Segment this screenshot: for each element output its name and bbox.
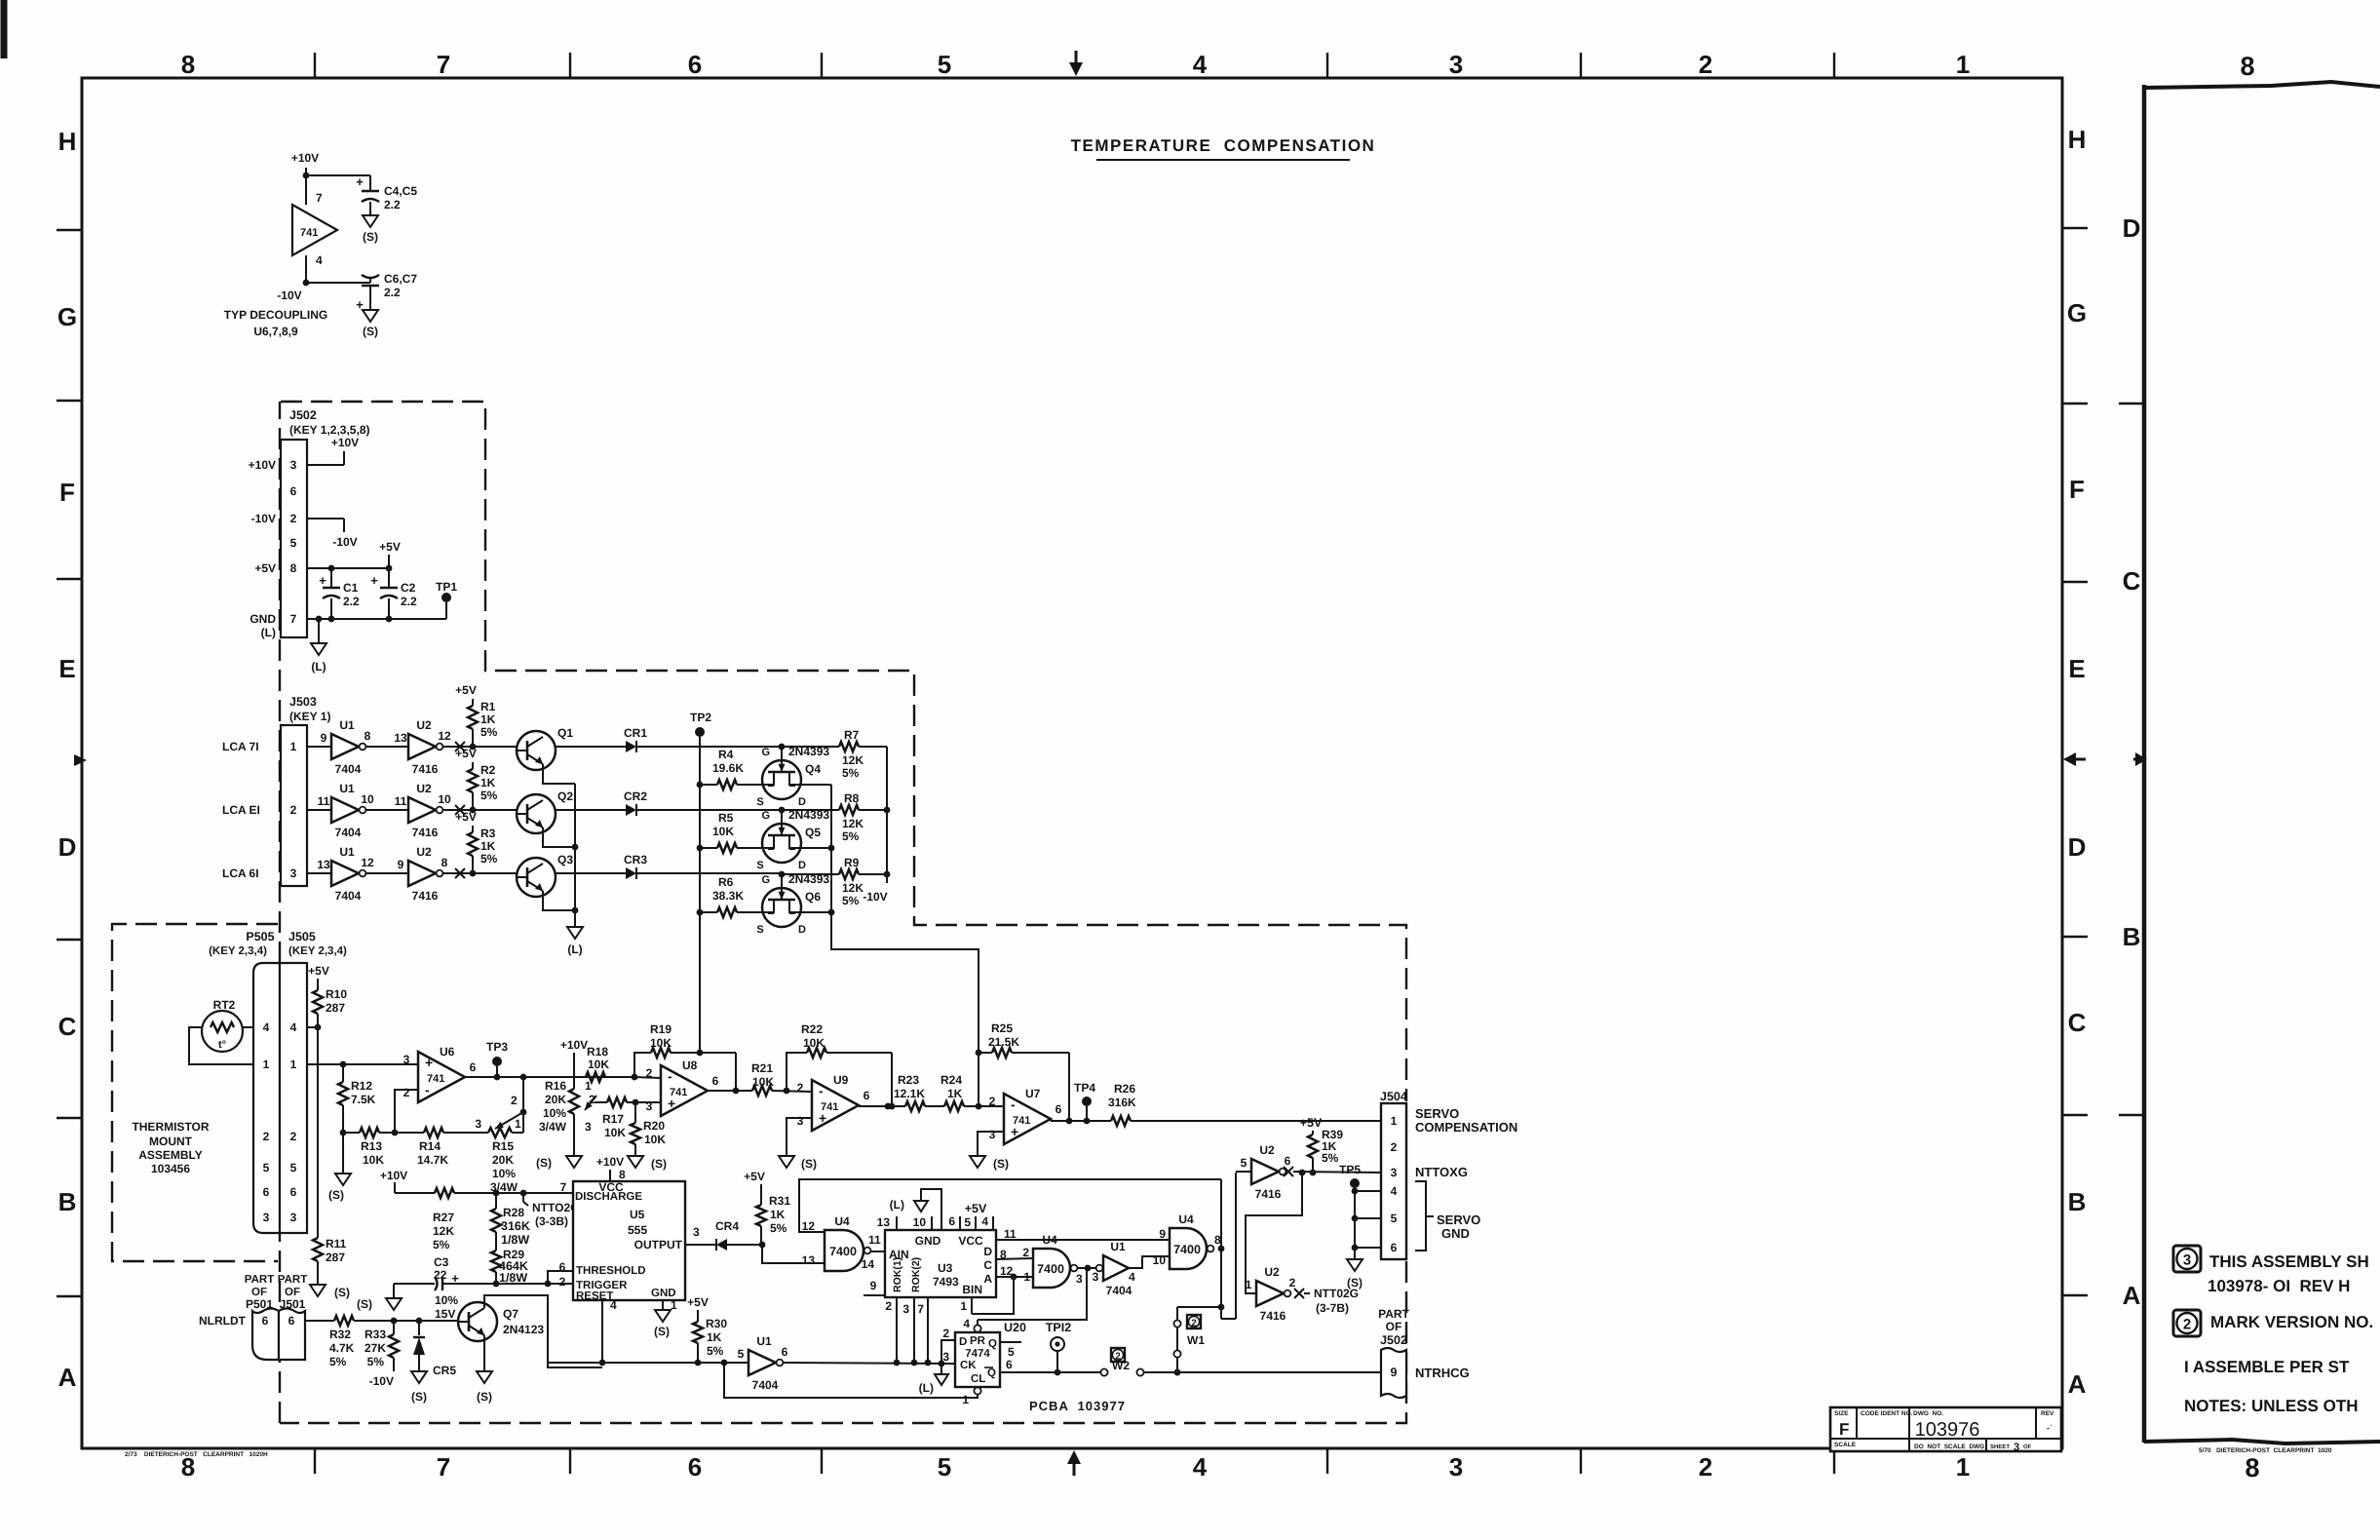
IC U5 555	[573, 1180, 685, 1302]
svg-text:SCALE: SCALE	[1834, 1442, 1857, 1448]
svg-text:U1: U1	[339, 718, 355, 732]
U20 D hook	[941, 1327, 955, 1364]
node +10V (decoupling)	[291, 151, 319, 178]
svg-text:2: 2	[942, 1327, 949, 1340]
wire	[556, 746, 626, 748]
IC U3 7493	[885, 1230, 996, 1297]
svg-text:-: -	[668, 1068, 672, 1084]
svg-text:COMPENSATION: COMPENSATION	[1415, 1120, 1517, 1135]
node U8 inverting	[632, 1074, 661, 1081]
wire U6 output	[465, 1074, 634, 1081]
wire NTTOXG row	[1284, 1167, 1381, 1176]
svg-text:MOUNT: MOUNT	[149, 1135, 193, 1148]
svg-text:CODE IDENT NO.: CODE IDENT NO.	[1861, 1410, 1913, 1417]
svg-text:U3: U3	[938, 1261, 953, 1275]
svg-text:7474: 7474	[965, 1348, 990, 1360]
wire	[443, 868, 530, 878]
ground (S)	[328, 1174, 351, 1202]
resistor R12 7.5K	[338, 1064, 376, 1133]
svg-text:R10: R10	[326, 987, 347, 1001]
svg-text:W1: W1	[1187, 1333, 1205, 1347]
P505/J505 pin numbers	[263, 1020, 297, 1224]
main sheet border	[82, 78, 2062, 1448]
svg-text:-: -	[1011, 1097, 1016, 1112]
svg-text:8: 8	[2245, 1453, 2259, 1482]
svg-text:741: 741	[300, 227, 318, 239]
wire +5V rail from pin 8	[307, 540, 401, 571]
svg-text:C: C	[2068, 1008, 2087, 1037]
op-amp U6 741	[403, 1045, 477, 1102]
U3 bottom pin stubs 2,3,7	[885, 1297, 928, 1363]
svg-text:(KEY 2,3,4): (KEY 2,3,4)	[288, 945, 347, 957]
wire TP5 to pins 4,5,6	[1355, 1191, 1381, 1248]
capacitor C3 22 10% 15V	[394, 1255, 496, 1321]
svg-text:11: 11	[395, 794, 407, 808]
svg-text:11: 11	[318, 794, 330, 808]
resistor R7 12K 5%	[782, 728, 887, 780]
ground (S)	[1347, 1248, 1363, 1290]
svg-text:9: 9	[1159, 1227, 1166, 1241]
svg-text:B: B	[2123, 922, 2141, 951]
IC U20 7474	[955, 1332, 1000, 1387]
wire -10V from pin 2	[307, 519, 358, 549]
svg-text:6: 6	[1285, 1154, 1291, 1168]
svg-text:10: 10	[913, 1215, 927, 1229]
node +10V R27 feed	[380, 1169, 407, 1193]
svg-text:316K: 316K	[1108, 1096, 1136, 1109]
inverter U2 7416 (NTT02G)	[1246, 1265, 1296, 1323]
transistor Q1	[517, 726, 573, 770]
svg-text:7416: 7416	[1260, 1309, 1286, 1323]
svg-text:9: 9	[321, 731, 327, 745]
svg-text:10K: 10K	[588, 1058, 609, 1071]
wire +10V from pin 3	[307, 436, 359, 465]
wire drain	[789, 911, 831, 913]
resistor R26 316K	[1108, 1082, 1136, 1126]
svg-text:ROK(2): ROK(2)	[910, 1257, 922, 1292]
resistor R29 464K 1/8W	[491, 1232, 528, 1285]
svg-text:10%: 10%	[492, 1167, 516, 1180]
resistor R14 14.7K	[395, 1128, 488, 1167]
svg-text:8: 8	[1000, 1248, 1007, 1261]
svg-text:8: 8	[181, 50, 195, 79]
diode CR2	[624, 789, 647, 816]
svg-text:P505: P505	[246, 930, 274, 943]
svg-text:C: C	[983, 1258, 992, 1272]
svg-text:6: 6	[1006, 1358, 1013, 1371]
svg-text:E: E	[58, 654, 75, 683]
svg-text:D: D	[58, 832, 77, 862]
J503 pin numbers	[290, 740, 297, 880]
svg-text:(L): (L)	[890, 1198, 904, 1212]
wire U3 BIN loop	[960, 1274, 1017, 1314]
wire U6 pin2	[395, 1090, 418, 1133]
wire	[307, 809, 331, 811]
wire GND rail pin 7	[307, 616, 446, 623]
svg-text:5%: 5%	[707, 1344, 724, 1358]
svg-text:I ASSEMBLE PER ST: I ASSEMBLE PER ST	[2184, 1358, 2350, 1376]
wire U2B input loop	[1246, 1173, 1302, 1293]
svg-text:+10V: +10V	[249, 458, 276, 472]
resistor R25 21.5K feedback	[976, 1021, 1073, 1124]
top border center arrow	[1069, 51, 1083, 76]
svg-text:15V: 15V	[435, 1307, 455, 1321]
svg-text:OUTPUT: OUTPUT	[634, 1238, 683, 1251]
svg-text:2: 2	[1699, 50, 1712, 79]
op-amp 741 typ decoupling	[292, 191, 337, 267]
svg-text:ASSEMBLY: ASSEMBLY	[138, 1148, 203, 1162]
svg-text:(3-7B): (3-7B)	[1316, 1301, 1349, 1315]
svg-text:7.5K: 7.5K	[351, 1093, 376, 1106]
svg-text:7400: 7400	[1173, 1243, 1201, 1256]
svg-text:R4: R4	[718, 748, 734, 761]
svg-text:Q: Q	[988, 1338, 997, 1350]
svg-text:7404: 7404	[335, 889, 362, 903]
svg-text:1: 1	[290, 1058, 297, 1071]
left zone letters	[58, 127, 77, 1392]
P501/J501 pin 6	[199, 1314, 295, 1328]
resistor R30 1K 5%	[687, 1295, 727, 1366]
test point TP2	[690, 711, 711, 737]
svg-text:R22: R22	[801, 1022, 823, 1036]
inverter U1 7404 (Q3 channel)	[317, 845, 374, 903]
wire	[556, 809, 626, 811]
svg-text:CK: CK	[960, 1360, 977, 1371]
svg-text:A: A	[2123, 1281, 2141, 1310]
svg-text:7400: 7400	[1037, 1262, 1064, 1276]
svg-text:7: 7	[917, 1302, 924, 1316]
wire U4 pin12 loop	[799, 1179, 1221, 1232]
svg-text:LCA 6I: LCA 6I	[222, 866, 259, 880]
svg-text:G: G	[761, 747, 770, 758]
resistor R10 287	[308, 964, 347, 1027]
svg-text:Q4: Q4	[805, 762, 821, 776]
svg-text:4: 4	[1391, 1184, 1398, 1198]
inverter U2 7416 (Q2 channel)	[395, 782, 451, 839]
inverter U2 7416 (NTTOXG)	[1241, 1143, 1291, 1201]
svg-text:R32: R32	[329, 1328, 351, 1341]
svg-text:3: 3	[1093, 1270, 1099, 1284]
svg-text:C: C	[58, 1012, 77, 1041]
svg-text:(KEY 2,3,4): (KEY 2,3,4)	[209, 945, 267, 957]
svg-text:CR3: CR3	[624, 853, 647, 866]
connector J502	[281, 408, 370, 637]
svg-text:(S): (S)	[993, 1157, 1009, 1171]
svg-text:3: 3	[1449, 1452, 1463, 1482]
fet Q5 2N4393	[756, 807, 829, 871]
bottom border zone ticks	[315, 1448, 1834, 1474]
wire trigger row	[493, 1281, 573, 1288]
svg-text:2.2: 2.2	[343, 595, 360, 608]
svg-text:10K: 10K	[752, 1075, 774, 1089]
svg-text:3: 3	[290, 458, 297, 472]
svg-text:5: 5	[290, 1161, 297, 1174]
svg-text:3: 3	[1449, 50, 1463, 79]
wire U7 out	[1051, 1118, 1111, 1125]
svg-text:3: 3	[2183, 1252, 2191, 1269]
svg-text:4: 4	[981, 1214, 988, 1228]
svg-text:5: 5	[1391, 1212, 1398, 1225]
svg-text:CR5: CR5	[433, 1364, 456, 1377]
resistor R5 10K	[700, 811, 774, 853]
svg-text:5%: 5%	[480, 789, 498, 802]
resistor R31 1K 5%	[744, 1170, 790, 1245]
svg-text:1: 1	[515, 1117, 521, 1131]
ground (S)	[970, 1156, 1009, 1171]
svg-text:S: S	[756, 860, 763, 871]
svg-text:3: 3	[989, 1128, 996, 1141]
svg-text:12: 12	[802, 1219, 816, 1233]
svg-text:+5V: +5V	[455, 683, 477, 697]
wire U4 out to U3 AIN	[862, 1251, 885, 1271]
svg-text:11: 11	[868, 1233, 881, 1247]
wire	[366, 872, 408, 874]
svg-text:G: G	[58, 302, 77, 331]
svg-text:11: 11	[1004, 1227, 1017, 1241]
wire reset row	[548, 1360, 749, 1367]
svg-text:R25: R25	[991, 1021, 1013, 1035]
wire jog to U2 input column	[1221, 1173, 1236, 1319]
resistor R23 12.1K	[894, 1073, 944, 1111]
resistor R8 12K 5%	[782, 791, 887, 843]
U20 CL pin1	[962, 1387, 980, 1406]
connector J503	[281, 695, 330, 886]
svg-text:PART: PART	[245, 1274, 274, 1286]
svg-text:5: 5	[938, 1452, 951, 1482]
svg-text:R23: R23	[898, 1073, 919, 1087]
right border center arrow	[2063, 752, 2086, 766]
ground (S)	[628, 1156, 667, 1171]
svg-text:(S): (S)	[363, 230, 378, 244]
connector J505	[280, 930, 347, 1233]
wire U2 input	[1236, 1171, 1251, 1173]
J503 signal labels	[222, 740, 260, 880]
svg-text:9: 9	[870, 1279, 877, 1292]
svg-text:3: 3	[290, 1211, 297, 1224]
svg-text:R5: R5	[718, 811, 734, 825]
wire drain bus to R25	[828, 785, 979, 1106]
wire emitter	[543, 764, 575, 784]
svg-text:TEMPERATURE COMPENSATION: TEMPERATURE COMPENSATION	[1071, 136, 1376, 155]
nand U4 7400 (left)	[802, 1214, 881, 1271]
svg-text:10%: 10%	[435, 1293, 458, 1307]
svg-text:U7: U7	[1025, 1087, 1041, 1100]
resistor R28 316K 1/8W	[491, 1193, 530, 1247]
op-amp U8 741	[646, 1059, 719, 1116]
U5 gnd pin 1	[654, 1298, 677, 1338]
svg-text:U2: U2	[416, 782, 432, 795]
inverter U1 7404 (Q2 channel)	[318, 782, 374, 839]
right border zone ticks	[2062, 228, 2088, 1295]
transistor Q3	[517, 853, 573, 897]
wire emitter	[543, 828, 575, 847]
svg-text:-10V: -10V	[863, 890, 887, 904]
svg-text:B: B	[2068, 1187, 2087, 1216]
svg-text:C4,C5: C4,C5	[384, 184, 417, 198]
wire -10V bus (R7/R8/R9)	[863, 747, 890, 904]
resistor R4 19.6K	[700, 748, 774, 789]
svg-text:7404: 7404	[752, 1378, 779, 1392]
left border center arrow	[74, 754, 87, 766]
resistor R3 1K 5%	[455, 810, 498, 873]
ground (L)	[311, 619, 326, 674]
U20 PR pin4	[963, 1268, 1087, 1332]
connector J501 (part of)	[278, 1274, 307, 1360]
svg-text:4: 4	[1129, 1270, 1135, 1284]
svg-text:287: 287	[326, 1001, 345, 1015]
svg-text:GND: GND	[250, 612, 276, 626]
svg-text:7: 7	[290, 612, 297, 626]
wire to ground	[342, 1133, 344, 1174]
resistor R2 1K 5%	[455, 747, 498, 810]
svg-text:Q2: Q2	[557, 789, 573, 803]
svg-text:5%: 5%	[842, 766, 860, 780]
svg-text:27K: 27K	[365, 1341, 386, 1355]
svg-text:7: 7	[316, 191, 323, 205]
title block	[1830, 1407, 2061, 1453]
svg-text:U2: U2	[1259, 1143, 1275, 1157]
svg-text:A: A	[58, 1363, 77, 1392]
wire to J504 pin1	[1131, 1120, 1381, 1122]
test point TP5	[1339, 1163, 1361, 1251]
svg-text:14: 14	[862, 1257, 875, 1271]
svg-text:U1: U1	[339, 845, 355, 859]
op-amp U7 741	[989, 1087, 1062, 1144]
svg-text:DO NOT SCALE DWG: DO NOT SCALE DWG	[1914, 1444, 1984, 1450]
svg-text:(S): (S)	[411, 1390, 427, 1404]
wire U9 out	[859, 1103, 905, 1110]
ground (L) U20 CK node	[919, 1364, 948, 1395]
svg-text:3: 3	[403, 1053, 410, 1066]
svg-text:8: 8	[1214, 1233, 1221, 1247]
svg-text:1K: 1K	[480, 776, 496, 789]
svg-text:R30: R30	[706, 1317, 727, 1330]
svg-text:THIS ASSEMBLY SH: THIS ASSEMBLY SH	[2209, 1252, 2369, 1271]
svg-text:SHEET: SHEET	[1990, 1444, 2010, 1450]
svg-text:G: G	[761, 810, 770, 822]
svg-text:THERMISTOR: THERMISTOR	[132, 1120, 209, 1134]
svg-text:+10V: +10V	[596, 1155, 624, 1169]
resistor R13 10K	[343, 1128, 395, 1167]
svg-text:38.3K: 38.3K	[712, 889, 744, 903]
fet Q4 2N4393	[756, 744, 829, 808]
note symbol 2	[2173, 1310, 2201, 1336]
svg-text:D: D	[798, 796, 806, 808]
svg-text:+5V: +5V	[308, 964, 329, 978]
op-amp U9 741	[797, 1073, 870, 1131]
resistor R27 12K 5%	[395, 1188, 573, 1251]
svg-text:4: 4	[290, 1020, 297, 1034]
svg-text:TP2: TP2	[690, 711, 711, 724]
svg-text:D: D	[959, 1336, 967, 1348]
U3 pin 9 stub	[864, 1279, 885, 1295]
wire	[366, 809, 408, 811]
svg-text:J502: J502	[289, 408, 317, 422]
svg-text:2: 2	[646, 1066, 653, 1080]
wire J505 pin1 to U6	[307, 1061, 418, 1068]
svg-text:J502: J502	[1380, 1333, 1407, 1347]
test point TP4	[1074, 1081, 1095, 1121]
svg-text:2: 2	[1391, 1140, 1398, 1154]
svg-text:316K: 316K	[501, 1219, 530, 1233]
svg-text:8: 8	[441, 856, 448, 869]
svg-text:NTTOXG: NTTOXG	[1415, 1165, 1468, 1179]
svg-text:1: 1	[1956, 1452, 1970, 1482]
jumper W1	[1173, 1320, 1180, 1375]
svg-text:U4: U4	[834, 1214, 850, 1228]
svg-text:+10V: +10V	[560, 1038, 588, 1052]
svg-text:C6,C7: C6,C7	[384, 272, 417, 286]
thermistor RT2	[202, 998, 243, 1052]
wire U20 CL loop	[724, 1363, 978, 1398]
ground (L) hook U3 pin10	[890, 1189, 941, 1230]
svg-text:6: 6	[288, 1314, 295, 1328]
svg-text:R1: R1	[480, 700, 496, 713]
svg-text:10: 10	[361, 792, 374, 806]
ground (S)	[536, 1156, 582, 1170]
svg-text:C3: C3	[434, 1255, 449, 1269]
svg-text:1: 1	[1023, 1270, 1030, 1284]
diode CR1	[624, 726, 647, 752]
svg-text:3: 3	[693, 1225, 700, 1239]
svg-text:741: 741	[427, 1073, 444, 1085]
svg-text:TYP DECOUPLING: TYP DECOUPLING	[224, 308, 327, 322]
J504 pin numbers	[1391, 1114, 1398, 1254]
svg-text:1: 1	[962, 1393, 969, 1406]
svg-text:-: -	[819, 1083, 824, 1098]
transistor Q7 2N4123	[458, 1302, 544, 1341]
svg-text:SIZE: SIZE	[1834, 1410, 1849, 1417]
ground (S)	[363, 310, 378, 338]
wire	[443, 805, 530, 815]
svg-text:4: 4	[610, 1298, 617, 1312]
svg-text:3: 3	[263, 1211, 270, 1224]
svg-text:6: 6	[864, 1089, 870, 1102]
svg-text:A: A	[2068, 1369, 2087, 1399]
svg-text:F: F	[1839, 1420, 1849, 1439]
svg-text:12: 12	[1000, 1264, 1014, 1278]
svg-text:5: 5	[290, 536, 297, 550]
svg-text:2: 2	[290, 1130, 297, 1143]
wire	[277, 255, 370, 302]
svg-text:R14: R14	[419, 1139, 441, 1153]
resistor R24 1K	[940, 1073, 1004, 1111]
inverter U1 7404 (Q1 channel)	[321, 718, 371, 776]
svg-text:7404: 7404	[1106, 1284, 1132, 1297]
svg-text:8: 8	[2240, 52, 2254, 81]
label TYP DECOUPLING U6,7,8,9	[224, 308, 327, 338]
wire CR4 node to U4 pin13	[762, 1245, 825, 1263]
resistor R39 1K 5%	[1300, 1116, 1344, 1173]
wire NTRHCG row	[1056, 1371, 1100, 1373]
svg-text:741: 741	[821, 1101, 838, 1113]
svg-text:4: 4	[1193, 50, 1208, 79]
svg-text:12K: 12K	[842, 753, 864, 767]
svg-text:+: +	[356, 174, 364, 189]
U5 VCC pin 8	[596, 1155, 626, 1181]
svg-text:13: 13	[802, 1253, 816, 1267]
svg-text:2: 2	[263, 1130, 270, 1143]
svg-text:C1: C1	[343, 581, 359, 595]
node R12/R13	[340, 1130, 347, 1136]
svg-text:10K: 10K	[363, 1153, 384, 1167]
svg-text:2: 2	[290, 803, 297, 817]
svg-text:+5V: +5V	[744, 1170, 765, 1183]
svg-text:-10V: -10V	[277, 289, 301, 302]
svg-text:3: 3	[1391, 1166, 1398, 1179]
svg-text:(S): (S)	[328, 1188, 344, 1202]
connector J504	[1380, 1090, 1407, 1259]
